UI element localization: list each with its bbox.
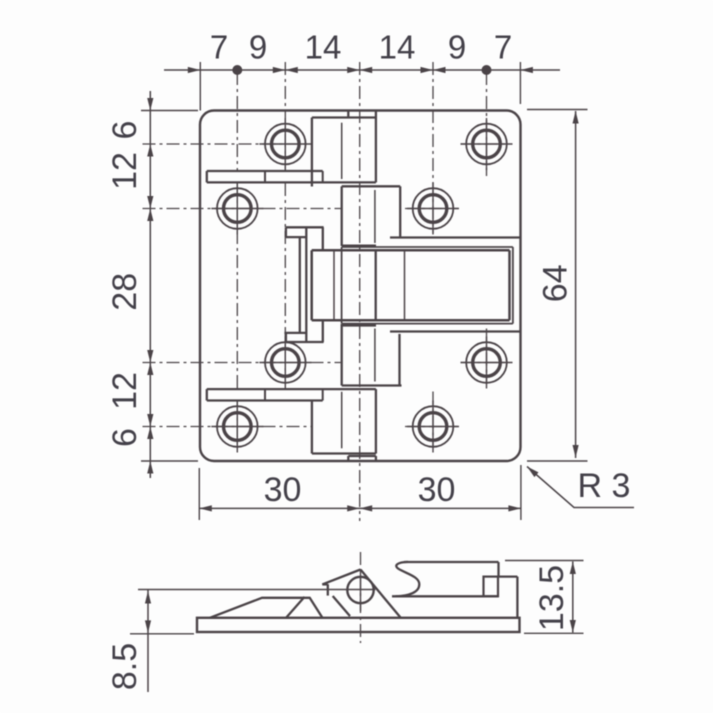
svg-text:12: 12: [106, 372, 144, 410]
svg-text:7: 7: [494, 29, 512, 66]
svg-text:14: 14: [305, 29, 342, 66]
svg-text:30: 30: [264, 471, 302, 509]
svg-text:9: 9: [448, 29, 466, 66]
svg-text:9: 9: [249, 29, 267, 66]
svg-text:8.5: 8.5: [106, 643, 144, 690]
svg-text:6: 6: [106, 121, 144, 140]
svg-text:28: 28: [106, 273, 144, 311]
svg-text:R 3: R 3: [578, 467, 631, 505]
svg-text:13.5: 13.5: [533, 565, 571, 631]
svg-text:12: 12: [106, 152, 144, 190]
svg-text:7: 7: [210, 29, 228, 66]
svg-text:64: 64: [537, 264, 575, 302]
svg-text:14: 14: [379, 29, 416, 66]
svg-text:6: 6: [106, 428, 144, 447]
svg-text:30: 30: [418, 471, 456, 509]
